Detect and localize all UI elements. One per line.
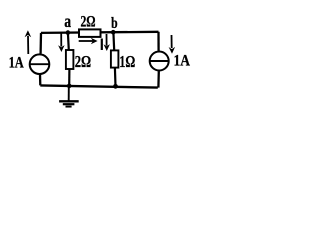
wire bottom horizontal [40, 85, 158, 87]
svg-text:2Ω: 2Ω [75, 52, 91, 71]
arrow current through R1 right [79, 40, 93, 42]
resistor R1 horizontal box [79, 29, 101, 37]
arrow current into R3 down [106, 34, 108, 46]
wire a branch lower [68, 69, 70, 86]
arrow I2 direction down [171, 35, 173, 48]
current source I2 circle [150, 52, 169, 71]
ground bars [59, 100, 79, 102]
svg-text:1A: 1A [174, 53, 191, 70]
svg-text:2Ω: 2Ω [81, 13, 96, 30]
svg-text:a: a [64, 11, 71, 31]
arrow current into R2 down [60, 34, 62, 47]
svg-text:1A: 1A [9, 55, 25, 72]
svg-text:1Ω: 1Ω [119, 52, 135, 71]
wire right branch upper [157, 32, 159, 51]
wire left branch upper [39, 33, 42, 54]
node a dot [66, 30, 71, 35]
stray mark vertical bar [101, 39, 103, 51]
current source I1 circle [30, 54, 50, 74]
ground stem [68, 88, 70, 101]
wire a branch upper [67, 33, 70, 51]
arrow I1 direction up [27, 36, 29, 54]
wire top horizontal [41, 32, 159, 33]
node b dot [111, 30, 116, 35]
resistor R3 vertical box [111, 50, 119, 67]
svg-text:b: b [111, 15, 118, 32]
resistor R2 vertical box [66, 50, 74, 69]
wire b branch lower [114, 68, 117, 87]
junction dot bottom a [67, 84, 72, 89]
wire b branch upper [112, 32, 115, 50]
junction dot bottom b [113, 84, 118, 89]
wire right branch lower [157, 71, 160, 87]
wire left branch lower [39, 74, 42, 85]
